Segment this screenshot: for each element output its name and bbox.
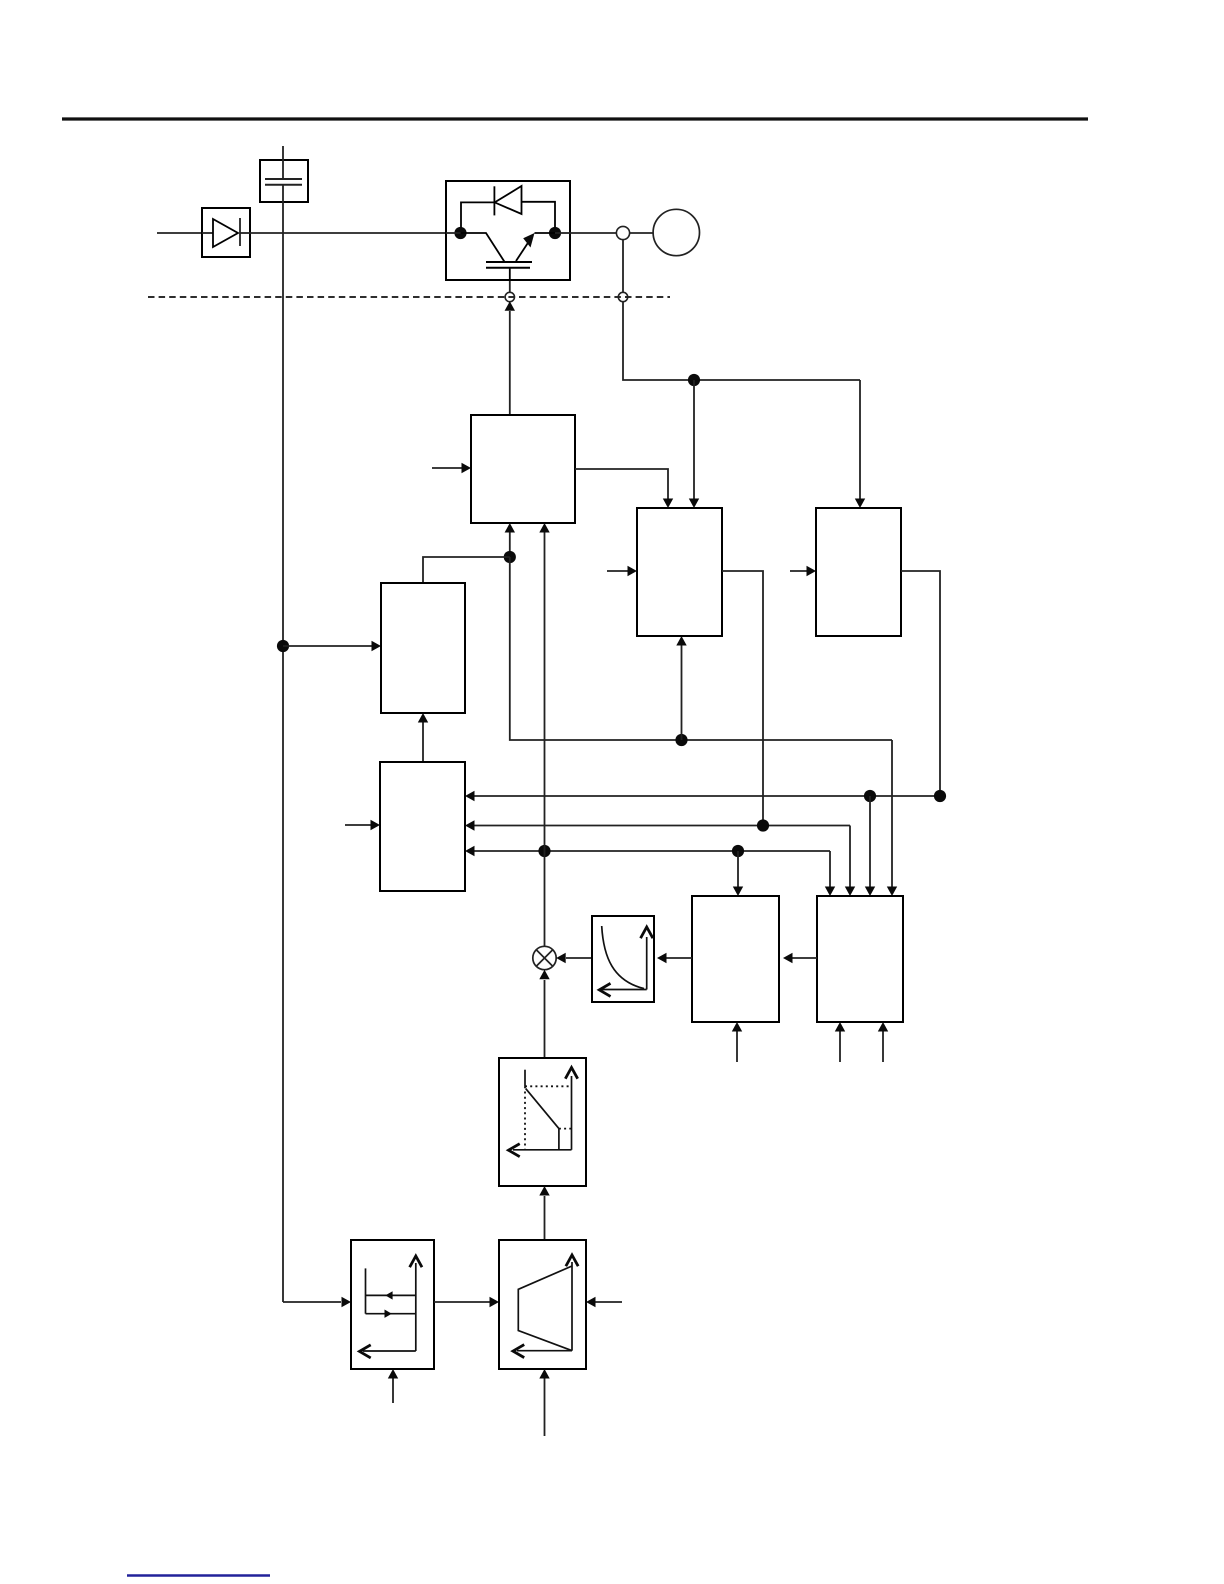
freq-calc bottom input stub	[732, 1022, 742, 1062]
processor bottom input stub 1	[835, 1022, 845, 1062]
PWM left input stub	[432, 463, 471, 473]
wire inverter internal bus left	[446, 232, 461, 234]
node output sense branch	[688, 374, 700, 386]
page header rule	[62, 117, 1088, 120]
V/f axes	[599, 927, 652, 996]
ramp right input stub	[586, 1297, 622, 1307]
ramp trapezoid symbol	[518, 1266, 572, 1350]
wire limiter output up into multiplier	[539, 970, 549, 1058]
wire line1 drop into right block	[865, 796, 875, 896]
PWM gate-drive block	[471, 415, 575, 523]
limiter axes	[509, 1068, 578, 1157]
arrow into frequency-bias block	[342, 1297, 352, 1307]
block controller	[380, 762, 465, 891]
node line2 B1 join	[757, 819, 769, 831]
block B2 (voltage detector)	[816, 508, 901, 636]
wire voltage calc output to node	[423, 557, 510, 583]
B2 right output drop	[901, 571, 940, 796]
inverter free-wheel diode	[461, 186, 555, 228]
block B1 (current detector)	[637, 508, 722, 636]
rectifier D1 diode symbol	[202, 218, 250, 247]
accel/decel ramp box	[499, 1240, 586, 1369]
B1 left input stub	[607, 566, 637, 576]
skip-frequency hysteresis box	[351, 1240, 434, 1369]
wire controller output up into voltage detector	[418, 713, 428, 762]
wire line2 drop into right block	[845, 826, 855, 897]
gate interface circle	[505, 292, 514, 301]
motor M circle	[653, 209, 699, 255]
wire DC voltage feedback arrow into voltage detector	[283, 641, 381, 651]
wire node down and right to right block	[510, 557, 892, 740]
feedback line 1 (from B2)	[465, 791, 940, 801]
node line3 multiplier join	[538, 845, 550, 857]
footer link underline (blue)	[127, 1574, 270, 1576]
hysteresis axes	[360, 1256, 422, 1357]
sense interface circle	[618, 292, 627, 301]
wire ramp output up into limiter	[539, 1186, 549, 1240]
DC bus capacitor C1 box	[260, 160, 308, 202]
wire DC bus sense line (capacitor to bottom left)	[283, 185, 341, 1302]
block voltage detector (DC bus)	[381, 583, 465, 713]
PWM bottom input 1 arrow	[505, 523, 515, 533]
wire line3 drop into mid block	[733, 851, 743, 896]
feedback line 2 (from B1)	[465, 820, 850, 830]
rectifier D1 box	[202, 208, 250, 257]
node inverter collector junction	[454, 227, 466, 239]
V/f hyperbola curve	[602, 926, 644, 989]
wire AC input to rectifier	[157, 232, 202, 234]
dashed power/control boundary line	[148, 296, 670, 298]
wire rectifier to inverter (DC bus +)	[250, 232, 446, 234]
ramp bottom input stub	[539, 1369, 549, 1436]
PWM bottom input 2 arrow	[539, 523, 549, 533]
node DC voltage tap	[277, 640, 289, 652]
wire V/f box output into multiplier	[556, 953, 592, 963]
wire inverter internal bus right	[555, 232, 570, 234]
B1 right output drop	[722, 571, 763, 826]
DC bus capacitor C1 plates	[265, 179, 302, 185]
processor bottom input stub 2	[878, 1022, 888, 1062]
hysteresis loop symbol	[366, 1268, 416, 1318]
node line3 mid-block drop	[732, 845, 744, 857]
wire voltage-ref vertical (node to PWM)	[509, 533, 511, 558]
terminal circle inverter output	[616, 226, 629, 239]
frequency reference line 3	[465, 846, 830, 856]
V/f pattern box	[592, 916, 654, 1002]
wire terminal to motor	[630, 232, 654, 234]
PWM right output to B1 top	[575, 469, 673, 508]
wire line3 drop into right block	[825, 851, 835, 896]
ramp axes	[513, 1255, 578, 1357]
wire right end down into right block top	[887, 740, 897, 896]
node line1 drop	[864, 790, 876, 802]
inverter IGBT Q1 symbol	[461, 233, 556, 281]
hysteresis output to ramp box	[434, 1297, 499, 1307]
block current/voltage processor	[817, 896, 903, 1022]
B2 left input stub	[790, 566, 816, 576]
freq-calc left output into V/f box	[657, 953, 692, 963]
wire capacitor top stub	[282, 146, 284, 179]
node line1 B2 join	[934, 790, 946, 802]
wire output sense down from terminal	[622, 240, 624, 293]
wire multiplier output up to PWM	[544, 533, 546, 947]
node feedback branch under B1	[675, 734, 687, 746]
controller left input stub	[345, 820, 380, 830]
hysteresis bottom input stub	[388, 1369, 398, 1403]
wire output sense below boundary	[623, 302, 860, 380]
wire sense into block B1 top	[689, 380, 699, 508]
node voltage reference	[504, 551, 516, 563]
wire inverter to output terminal	[570, 232, 617, 234]
node inverter emitter junction	[549, 227, 561, 239]
wire branch up into B1 bottom	[676, 636, 686, 740]
stall prevention limiter box	[499, 1058, 586, 1186]
processor left output into freq-calc	[783, 953, 817, 963]
IGBT inverter module U1 box	[446, 181, 570, 280]
limiter characteristic	[525, 1070, 572, 1150]
wire IGBT gate lead to interface	[509, 281, 511, 292]
wire sense into block B2 top	[855, 380, 865, 508]
block frequency calculator	[692, 896, 779, 1022]
multiplier circle (x)	[533, 946, 556, 969]
wire gate drive up-arrow into interface	[505, 301, 515, 415]
